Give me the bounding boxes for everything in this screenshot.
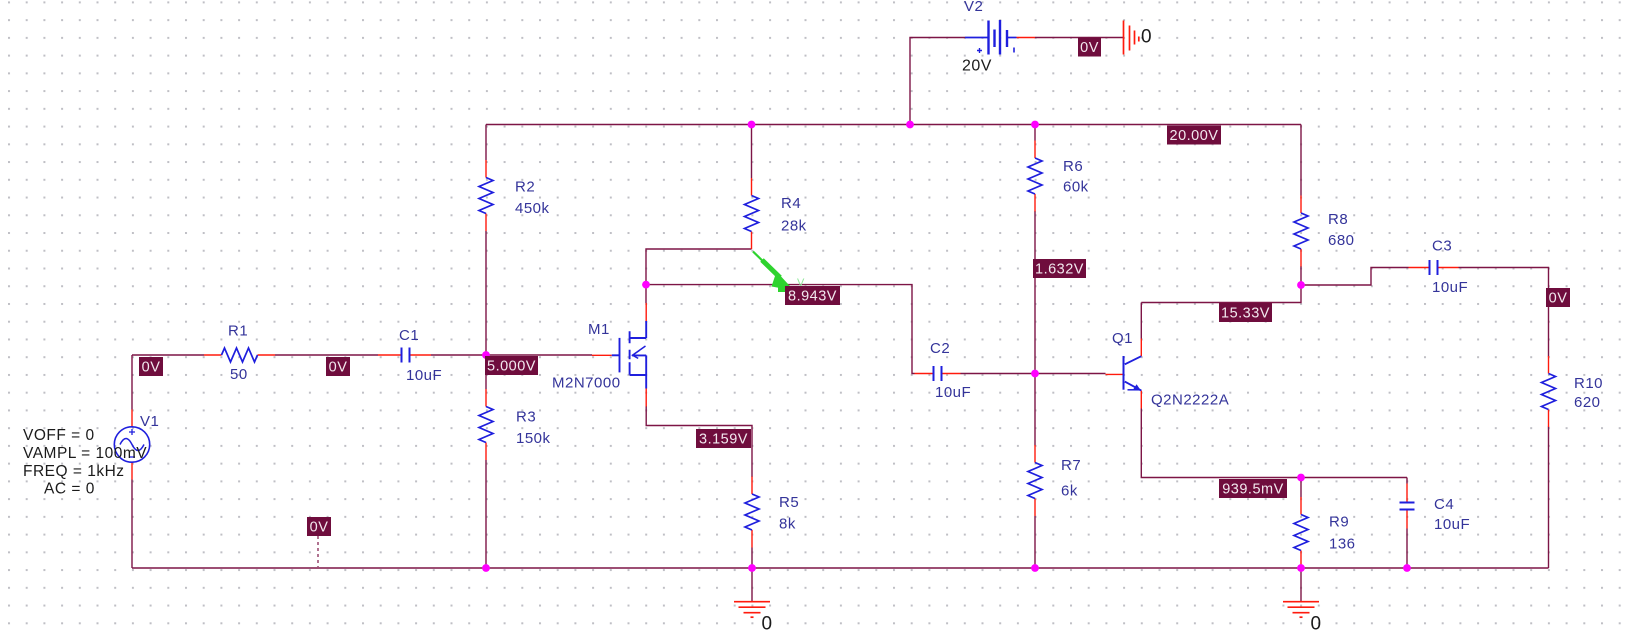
node label 0V input (139, 357, 163, 376)
voltage source V1 (114, 410, 159, 480)
svg-text:M2N7000: M2N7000 (552, 375, 621, 392)
node label 5.000V (485, 356, 538, 375)
svg-text:20V: 20V (962, 58, 992, 75)
svg-text:0V: 0V (1080, 40, 1099, 56)
svg-text:20.00V: 20.00V (1170, 128, 1219, 144)
wire R4 column and link (646, 125, 752, 285)
V1 parameter text (23, 427, 147, 498)
svg-text:R3: R3 (516, 409, 536, 426)
node label 1.632V (1033, 259, 1086, 278)
node label 15.33V (1219, 303, 1272, 322)
resistor R9 (1294, 497, 1356, 568)
node label 939.5mV (1219, 479, 1287, 498)
svg-text:R1: R1 (228, 323, 248, 340)
resistor R1 (204, 323, 275, 384)
svg-text:VOFF = 0: VOFF = 0 (23, 427, 95, 444)
svg-text:0: 0 (1141, 27, 1152, 48)
wire C4 column (1406, 478, 1408, 569)
wire ground stem mid (751, 568, 753, 601)
battery V2 (962, 0, 1035, 75)
node label 8.943V (785, 286, 840, 305)
wire R9 top (1300, 478, 1302, 498)
svg-text:0V: 0V (142, 360, 161, 376)
svg-text:15.33V: 15.33V (1221, 306, 1270, 322)
resistor R7 (1028, 445, 1081, 516)
svg-text:R2: R2 (515, 179, 535, 196)
node label 0V at V2 (1078, 38, 1101, 57)
svg-text:Q2N2222A: Q2N2222A (1151, 392, 1229, 409)
wire bottom ground bus (132, 567, 1549, 569)
svg-text:50: 50 (230, 366, 248, 383)
svg-text:3.159V: 3.159V (699, 432, 748, 448)
svg-text:V1: V1 (140, 413, 159, 430)
wire C3 to R10 (1459, 268, 1549, 569)
svg-text:R6: R6 (1063, 158, 1083, 175)
svg-text:0: 0 (1311, 614, 1322, 630)
resistor R3 (479, 389, 551, 460)
wire node to C3 (1301, 268, 1409, 286)
svg-text:R7: R7 (1061, 457, 1081, 474)
node label 0V output (1546, 288, 1570, 307)
svg-text:AC = 0: AC = 0 (44, 481, 95, 498)
svg-text:R9: R9 (1329, 514, 1349, 531)
node label 0V dangling (307, 517, 331, 536)
svg-text:136: 136 (1329, 536, 1356, 553)
probe marker (753, 252, 805, 293)
MOSFET M1 (552, 303, 646, 407)
svg-text:10uF: 10uF (406, 367, 442, 384)
svg-text:0: 0 (762, 614, 773, 630)
wire V2 to ground (1035, 37, 1123, 39)
capacitor C4 (1400, 484, 1471, 534)
resistor R5 (745, 477, 799, 548)
resistor R2 (479, 160, 550, 231)
svg-text:10uF: 10uF (1432, 279, 1468, 296)
svg-text:450k: 450k (515, 200, 550, 217)
wire R2 R3 column (485, 125, 487, 569)
wire V1 column (131, 355, 133, 568)
node label 0V after R1 (326, 357, 350, 376)
wire C2 to Q1 base (961, 373, 1106, 375)
svg-text:620: 620 (1574, 394, 1601, 411)
svg-text:C3: C3 (1432, 238, 1452, 255)
wire Q1 collector net (1141, 266, 1301, 339)
wire top supply bus (486, 124, 1301, 126)
capacitor C2 (915, 340, 972, 401)
svg-text:5.000V: 5.000V (487, 359, 536, 375)
resistor R4 (745, 178, 807, 249)
svg-text:R5: R5 (779, 494, 799, 511)
svg-text:C2: C2 (930, 340, 950, 357)
svg-text:C4: C4 (1434, 496, 1454, 513)
svg-text:R10: R10 (1574, 375, 1603, 392)
svg-text:V2: V2 (964, 0, 983, 15)
svg-text:939.5mV: 939.5mV (1222, 482, 1284, 498)
svg-text:10uF: 10uF (1434, 516, 1470, 533)
node label 3.159V (696, 429, 751, 448)
svg-text:10uF: 10uF (935, 384, 971, 401)
svg-text:VAMPL = 100mV: VAMPL = 100mV (23, 445, 147, 462)
svg-text:8.943V: 8.943V (788, 289, 837, 305)
svg-text:680: 680 (1328, 232, 1355, 249)
svg-text:R8: R8 (1328, 211, 1348, 228)
svg-text:1.632V: 1.632V (1035, 262, 1084, 278)
resistor R8 (1294, 196, 1355, 267)
node label 20.00V (1167, 126, 1221, 145)
svg-text:0V: 0V (310, 520, 329, 536)
wire R8 top (1300, 125, 1302, 196)
transistor Q1 (1106, 330, 1230, 409)
svg-text:FREQ = 1kHz: FREQ = 1kHz (23, 463, 125, 480)
svg-text:0V: 0V (1549, 291, 1568, 307)
svg-text:8k: 8k (779, 516, 796, 533)
svg-text:C1: C1 (399, 327, 419, 344)
svg-text:Q1: Q1 (1112, 330, 1133, 347)
ground 0 below R5 (734, 602, 773, 630)
wire V2 branch left (910, 38, 965, 125)
svg-text:R4: R4 (781, 195, 801, 212)
svg-text:60k: 60k (1063, 179, 1089, 196)
svg-text:28k: 28k (781, 218, 807, 235)
wire M1 source to R5 (646, 406, 752, 568)
wire ground stem right (1300, 568, 1302, 601)
resistor R10 (1542, 356, 1604, 427)
wire input bus (132, 354, 592, 356)
svg-text:M1: M1 (588, 321, 610, 338)
resistor R6 (1028, 141, 1089, 212)
wire M1 drain net (646, 285, 915, 374)
ground 0 at V2 (1124, 21, 1153, 55)
svg-text:150k: 150k (516, 430, 551, 447)
wire Q1 emitter net (1141, 409, 1407, 478)
capacitor C3 (1409, 238, 1469, 297)
svg-text:6k: 6k (1061, 483, 1078, 500)
ground 0 below R9 (1283, 602, 1322, 630)
wire dashed 0V marker (317, 536, 319, 567)
wire R6 R7 column (1034, 125, 1036, 569)
capacitor C1 (378, 327, 442, 384)
svg-text:0V: 0V (329, 360, 348, 376)
